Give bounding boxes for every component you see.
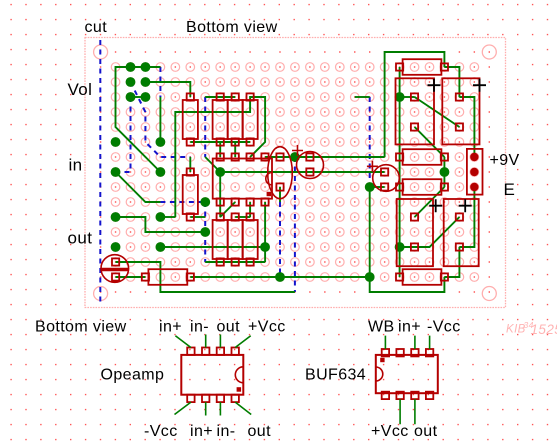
svg-text:Opeamp: Opeamp xyxy=(101,367,165,384)
svg-text:in+: in+ xyxy=(190,423,213,440)
svg-text:-Vcc: -Vcc xyxy=(427,319,461,336)
svg-text:in+: in+ xyxy=(159,319,182,336)
svg-text:in+: in+ xyxy=(398,319,421,336)
svg-text:in-: in- xyxy=(217,423,236,440)
svg-text:out: out xyxy=(217,319,241,336)
svg-text:WB: WB xyxy=(368,319,395,336)
svg-text:in: in xyxy=(69,156,83,175)
svg-text:+9V: +9V xyxy=(490,152,520,169)
svg-text:E: E xyxy=(504,180,516,199)
svg-text:Bottom view: Bottom view xyxy=(35,319,127,336)
svg-text:-Vcc: -Vcc xyxy=(144,423,178,440)
svg-text:+Vcc: +Vcc xyxy=(371,423,409,440)
svg-text:BUF634: BUF634 xyxy=(305,367,366,384)
svg-text:Bottom view: Bottom view xyxy=(186,19,278,36)
svg-text:Vol: Vol xyxy=(68,80,93,99)
svg-text:1525: 1525 xyxy=(531,322,557,337)
svg-text:out: out xyxy=(68,229,93,248)
svg-text:out: out xyxy=(414,423,438,440)
svg-text:in-: in- xyxy=(190,319,209,336)
svg-text:+Vcc: +Vcc xyxy=(248,319,286,336)
svg-text:out: out xyxy=(248,423,272,440)
svg-text:cut: cut xyxy=(85,19,108,36)
